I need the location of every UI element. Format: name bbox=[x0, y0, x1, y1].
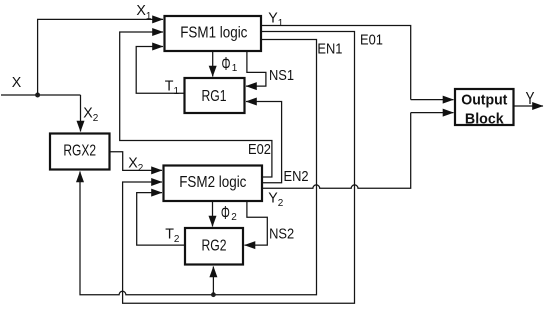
svg-text:T1: T1 bbox=[165, 78, 180, 97]
svg-text:X: X bbox=[12, 75, 22, 91]
svg-text:E01: E01 bbox=[360, 31, 383, 48]
wire: Y1 FSM1 right to Output Block bbox=[261, 26, 411, 100]
wire: Phi2 FSM2 bottom into RG2 top bbox=[212, 201, 214, 227]
block RGX2 bbox=[50, 134, 110, 170]
svg-text:E02: E02 bbox=[248, 140, 271, 157]
block FSM2 logic bbox=[164, 166, 263, 202]
wire: EN1 branch up into RG2 bottom bbox=[212, 267, 214, 295]
node: X junction dot bbox=[35, 93, 40, 98]
svg-text:Y1: Y1 bbox=[268, 10, 283, 29]
wire: T1 feedback RG1 to FSM1 input3 bbox=[136, 47, 184, 94]
wire: X1 from junction up into FSM1 input1 bbox=[38, 19, 163, 95]
svg-text:Φ: Φ bbox=[221, 203, 230, 224]
node: EN1 junction dot bbox=[211, 292, 216, 297]
svg-text:1: 1 bbox=[232, 63, 238, 74]
wire: X2 down into RGX2 top bbox=[80, 95, 82, 132]
wire: E02 from FSM2 right to FSM1 input2 bbox=[120, 32, 272, 177]
wire: Phi1 FSM1 bottom into RG1 top bbox=[212, 51, 214, 77]
svg-text:NS1: NS1 bbox=[269, 66, 294, 83]
svg-text:Output: Output bbox=[461, 92, 507, 109]
svg-text:X2: X2 bbox=[83, 105, 98, 124]
svg-text:RG2: RG2 bbox=[201, 237, 226, 255]
svg-text:2: 2 bbox=[231, 212, 237, 223]
block RG2 bbox=[185, 228, 243, 265]
svg-text:Y2: Y2 bbox=[268, 190, 283, 209]
wire: E01 FSM1 right down around to FSM2 input2 bbox=[123, 32, 355, 304]
wire: T2 feedback RG2 to FSM2 input3 bbox=[137, 193, 185, 246]
svg-text:Block: Block bbox=[465, 111, 505, 128]
svg-text:FSM1 logic: FSM1 logic bbox=[180, 24, 247, 41]
svg-text:RG1: RG1 bbox=[201, 87, 226, 105]
svg-text:NS2: NS2 bbox=[269, 225, 294, 242]
block RG1 bbox=[185, 78, 245, 113]
wire: Y2 FSM2 right to Output Block with hops bbox=[262, 113, 411, 189]
wire: Y output from Output Block bbox=[514, 105, 544, 107]
svg-text:T2: T2 bbox=[165, 226, 180, 245]
block Output Block bbox=[455, 89, 514, 125]
wire: X input horizontal bbox=[1, 94, 81, 96]
svg-text:EN1: EN1 bbox=[317, 40, 342, 57]
wire: NS1 FSM1 bottom into RG1 right bbox=[246, 51, 266, 86]
svg-text:Φ: Φ bbox=[222, 54, 231, 75]
svg-text:Y: Y bbox=[526, 89, 535, 108]
svg-text:X2: X2 bbox=[128, 155, 143, 174]
block FSM1 logic bbox=[165, 16, 262, 51]
svg-text:RGX2: RGX2 bbox=[63, 141, 96, 159]
svg-text:X1: X1 bbox=[136, 3, 151, 22]
wire: RGX2 output X2 into FSM2 input1 bbox=[110, 152, 163, 171]
svg-text:FSM2 logic: FSM2 logic bbox=[179, 174, 246, 191]
wire: NS2 FSM2 bottom into RG2 right bbox=[245, 201, 268, 245]
wire: EN1 FSM1 right down along bottom to RGX2 bottom with hop bbox=[80, 40, 317, 295]
svg-text:EN2: EN2 bbox=[284, 167, 309, 184]
wire: EN2 FSM2 right up into RG1 right bbox=[246, 102, 282, 183]
